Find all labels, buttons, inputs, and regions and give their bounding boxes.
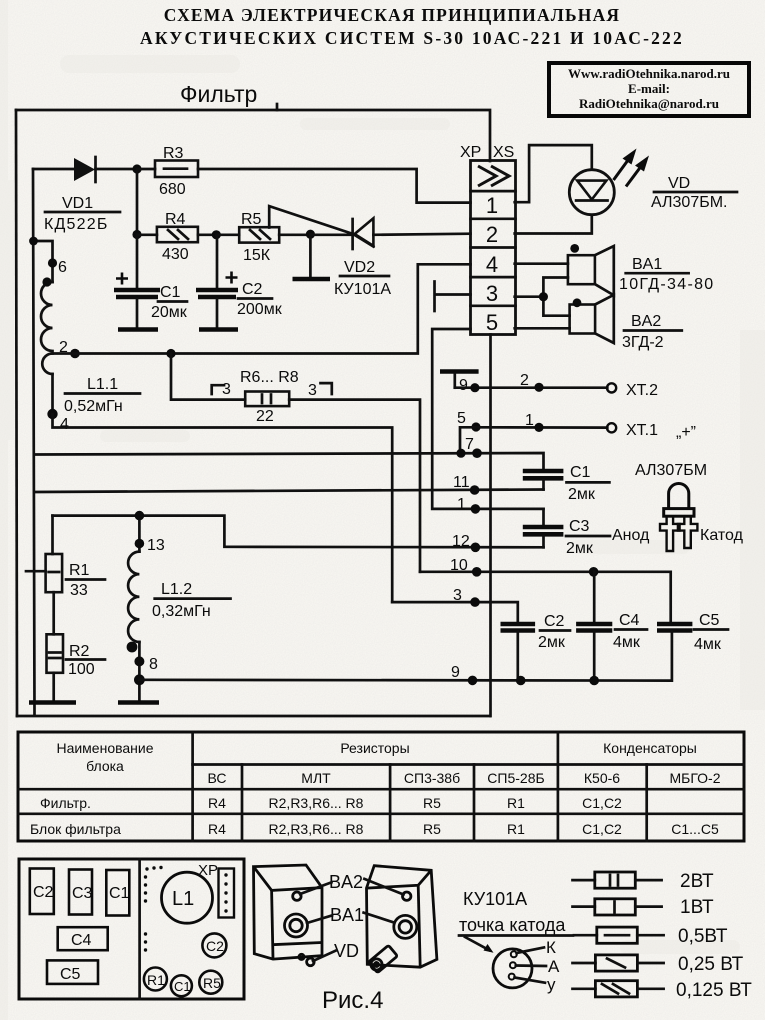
pad: winding end [127, 642, 138, 653]
pad 13 [135, 539, 145, 549]
wire: R6...R8 right to pad 10 rail [289, 400, 420, 572]
svg-text:4мк: 4мк [694, 636, 722, 653]
svg-text:3ГД-2: 3ГД-2 [622, 334, 664, 351]
svg-text:3: 3 [222, 381, 231, 398]
node: speaker tee junction [539, 292, 548, 301]
wire: pad 1 row [471, 504, 481, 514]
svg-text:Блок фильтра: Блок фильтра [30, 821, 121, 837]
ground bar under R2 [29, 700, 76, 705]
svg-text:XT.2: XT.2 [626, 382, 658, 399]
wire: row to terminal XT.1 [476, 426, 607, 429]
svg-text:VD1: VD1 [62, 195, 93, 212]
svg-text:0,125 ВТ: 0,125 ВТ [676, 980, 752, 1001]
Рис.4 right speaker cabinet [367, 866, 437, 974]
svg-text:9: 9 [459, 377, 468, 394]
svg-text:R5: R5 [203, 975, 221, 991]
inductor L1.1 [34, 241, 53, 414]
svg-text:100: 100 [68, 661, 95, 678]
svg-text:R2,R3,R6... R8: R2,R3,R6... R8 [269, 821, 364, 837]
VD2 gate lead [269, 206, 373, 246]
node: R4 left junction [132, 230, 141, 239]
svg-text:Рис.4: Рис.4 [322, 987, 383, 1014]
svg-text:C3: C3 [72, 885, 93, 902]
capacitor footprint C1 [106, 870, 129, 916]
wire: L1.1 pin4 row down to pad 3 row [53, 414, 393, 602]
svg-text:Анод: Анод [612, 527, 650, 544]
svg-text:2: 2 [520, 372, 529, 389]
wire: junction to common bar [309, 234, 312, 276]
wire: pin 5 stub left and down to pad 1 row [432, 329, 543, 509]
wire: pad 9 row from L1.2 to C5 bottom [139, 632, 672, 681]
pad 9 bar [440, 372, 479, 395]
wire: connector centre line down to bottom frame [489, 335, 492, 717]
node: L1.2 top junction [135, 511, 145, 521]
node 2 [534, 383, 543, 392]
power legend 0,25 Вт [573, 954, 744, 975]
svg-text:BA2: BA2 [631, 313, 661, 330]
svg-text:3: 3 [308, 382, 317, 399]
svg-text:7: 7 [465, 436, 474, 453]
wire: pad 3 row to C2 [392, 602, 518, 622]
svg-text:33: 33 [70, 582, 88, 599]
svg-text:C1: C1 [160, 284, 181, 301]
terminal XT.2 [607, 383, 616, 392]
svg-text:L1.1: L1.1 [87, 376, 118, 393]
wire: R1/L1.2 top net to pad 12 row [53, 516, 544, 548]
svg-text:C1: C1 [570, 464, 591, 481]
svg-text:2мк: 2мк [566, 540, 594, 557]
capacitor footprint C2 (round) [202, 933, 226, 957]
svg-text:L1.2: L1.2 [161, 581, 192, 598]
svg-text:5: 5 [457, 410, 466, 427]
svg-text:C2: C2 [242, 281, 263, 298]
pin У [509, 974, 515, 980]
capacitor C1 (20мк) [114, 235, 160, 330]
pin K [511, 951, 517, 957]
svg-text:VD: VD [334, 941, 359, 961]
node 1 [534, 423, 543, 432]
svg-text:C1,C2: C1,C2 [582, 795, 622, 811]
cathode leg [678, 516, 698, 548]
svg-text:1: 1 [457, 496, 466, 513]
pad 7a [456, 449, 465, 458]
wire: outer frame bottom edge [17, 715, 490, 718]
power legend 0,5 Вт [574, 926, 728, 947]
svg-text:C4: C4 [71, 932, 92, 949]
resistor R3 [137, 161, 198, 178]
svg-text:R1: R1 [507, 821, 525, 837]
connector XP/XS [471, 161, 516, 335]
node: R5/VD2 junction [306, 230, 315, 239]
node: pad 9 row junction [134, 674, 145, 685]
speaker BA1 [568, 244, 614, 295]
svg-text:2ВТ: 2ВТ [680, 871, 714, 892]
svg-text:8: 8 [149, 656, 158, 673]
resistor R1 [26, 516, 62, 635]
svg-text:1ВТ: 1ВТ [680, 897, 714, 918]
pin A [510, 962, 516, 968]
resistor R5 [216, 227, 310, 242]
svg-text:200мк: 200мк [237, 301, 283, 318]
pad 12 [471, 543, 481, 553]
power legend 0,125 Вт [573, 980, 753, 1001]
info box (web address) [549, 63, 749, 116]
svg-text:точка катода: точка катода [459, 915, 566, 935]
capacitor C2 (2мк) [501, 624, 536, 681]
resistor footprint R1 [144, 968, 167, 991]
capacitor C4 (4мк) [576, 572, 612, 681]
svg-text:К50-6: К50-6 [584, 770, 620, 786]
svg-text:у: у [547, 975, 556, 994]
svg-text:КУ101А: КУ101А [463, 889, 527, 909]
svg-text:блока: блока [86, 758, 124, 774]
svg-text:R3: R3 [163, 145, 184, 162]
svg-text:АЛ307БМ: АЛ307БМ [635, 462, 707, 479]
inductor footprint L1 [162, 872, 213, 923]
svg-text:12: 12 [452, 533, 470, 550]
svg-text:C1...C5: C1...C5 [671, 821, 719, 837]
svg-text:XS: XS [493, 144, 514, 161]
wire: pad 10 rail to C4/C5 top [420, 572, 671, 623]
svg-text:„+”: „+” [676, 424, 696, 441]
svg-text:C5: C5 [699, 612, 720, 629]
svg-text:R4: R4 [208, 821, 226, 837]
svg-text:СП5-28Б: СП5-28Б [487, 770, 544, 786]
svg-text:КУ101А: КУ101А [334, 281, 391, 298]
svg-text:C5: C5 [60, 966, 81, 983]
node: C4 top junction [589, 567, 599, 577]
svg-text:0,25 ВТ: 0,25 ВТ [678, 954, 744, 975]
resistor R4 [137, 227, 216, 242]
svg-text:0,32мГн: 0,32мГн [152, 603, 211, 620]
svg-text:Резисторы: Резисторы [340, 740, 409, 756]
indicator lamp cylinder [368, 945, 398, 973]
svg-text:R6... R8: R6... R8 [240, 369, 299, 386]
wire: pad 5 stub down to pad 7 row [460, 427, 476, 453]
node: C2 bottom junction [516, 676, 526, 686]
svg-text:А: А [548, 957, 560, 976]
svg-text:МЛТ: МЛТ [301, 770, 331, 786]
inductor L1.2 [128, 516, 139, 700]
capacitor footprint C2 [30, 869, 54, 915]
svg-text:13: 13 [147, 537, 165, 554]
label VD with leader [313, 941, 359, 961]
svg-text:1: 1 [525, 412, 534, 429]
wire: pad 11 row [35, 490, 544, 493]
bracket left with quantity 3 [212, 381, 231, 398]
anode leg [660, 516, 680, 551]
svg-text:R1: R1 [147, 972, 165, 988]
wire: stub from left rail to winding top [34, 241, 53, 282]
svg-text:9: 9 [451, 664, 460, 681]
svg-text:R4: R4 [165, 211, 186, 228]
svg-text:2: 2 [486, 222, 498, 247]
capacitor C1 (2мк) [523, 471, 564, 490]
svg-text:RadiOtehnika@narod.ru: RadiOtehnika@narod.ru [579, 96, 719, 111]
pad 8 [134, 656, 144, 666]
svg-text:VD2: VD2 [344, 259, 375, 276]
svg-text:МБГО-2: МБГО-2 [670, 770, 721, 786]
svg-text:5: 5 [486, 310, 498, 335]
svg-text:Катод: Катод [700, 527, 744, 544]
svg-text:АКУСТИЧЕСКИХ СИСТЕМ S-30 10АС-: АКУСТИЧЕСКИХ СИСТЕМ S-30 10АС-221 И 10АС… [140, 28, 684, 48]
LED VD [569, 149, 649, 215]
svg-text:C2: C2 [544, 613, 565, 630]
svg-text:R4: R4 [208, 795, 226, 811]
pad on XT.2 row [470, 383, 479, 392]
capacitor C3 (2мк) [523, 509, 564, 547]
svg-text:4мк: 4мк [613, 634, 641, 651]
svg-text:R1: R1 [69, 562, 90, 579]
solder dots row [144, 866, 163, 952]
svg-text:Наименование: Наименование [56, 740, 153, 756]
pad 10 [472, 567, 482, 577]
wire: tap 2 row to XP pin 4 [53, 264, 471, 353]
thyristor VD2 [269, 206, 470, 249]
svg-text:СХЕМА ЭЛЕКТРИЧЕСКАЯ ПРИНЦИПИАЛ: СХЕМА ЭЛЕКТРИЧЕСКАЯ ПРИНЦИПИАЛЬНАЯ [164, 5, 621, 25]
pad 9 (bottom) [468, 676, 478, 686]
svg-text:C1: C1 [174, 979, 191, 994]
svg-text:1: 1 [486, 193, 498, 218]
svg-text:0,52мГн: 0,52мГн [64, 398, 123, 415]
wire: row to terminal XT.2 [455, 386, 608, 389]
pin 2 tap pad [70, 349, 80, 359]
capacitor footprint C1 (round) [171, 975, 192, 996]
PCB layout figure [19, 859, 244, 999]
node Фильтр label [180, 81, 277, 110]
svg-text:VD: VD [668, 175, 690, 192]
power legend 1 Вт [573, 897, 714, 918]
flange [664, 509, 694, 517]
wire: junction down to R4 row [136, 169, 139, 235]
svg-text:2мк: 2мк [568, 486, 596, 503]
svg-text:3: 3 [486, 281, 498, 306]
svg-text:XT.1: XT.1 [626, 422, 658, 439]
svg-text:R5: R5 [241, 211, 262, 228]
svg-text:11: 11 [453, 474, 470, 491]
resistor R6...R8 [245, 392, 289, 407]
light emission arrows [614, 156, 632, 180]
svg-text:XP: XP [460, 144, 481, 161]
svg-text:R5: R5 [423, 795, 441, 811]
svg-text:E-mail:: E-mail: [628, 81, 670, 96]
svg-text:10ГД-34-80: 10ГД-34-80 [619, 276, 714, 293]
resistor footprint R5 [199, 971, 222, 994]
node: R4/R5/C2 junction [212, 230, 221, 239]
svg-text:20мк: 20мк [151, 304, 188, 321]
wire: pin 4 to BA1 [515, 262, 568, 265]
pad 3 [470, 597, 480, 607]
svg-text:BA1: BA1 [632, 256, 662, 273]
svg-text:3: 3 [453, 587, 462, 604]
wire: LED loop from chevron cell to pins 1,2 [515, 145, 592, 202]
svg-text:Фильтр: Фильтр [180, 81, 257, 107]
svg-text:0,5ВТ: 0,5ВТ [678, 926, 728, 947]
svg-text:2мк: 2мк [538, 634, 566, 651]
wire: outer frame left edge [16, 110, 17, 716]
capacitor footprint C5 [47, 960, 98, 984]
svg-text:4: 4 [60, 416, 69, 433]
chevron symbol [478, 166, 496, 186]
wire: pin 3 stub with terminal bar [435, 293, 471, 296]
svg-text:СП3-38б: СП3-38б [404, 770, 460, 786]
svg-text:C2: C2 [33, 884, 54, 901]
wire: pin 5 to BA2 [515, 327, 570, 330]
svg-text:КД522Б: КД522Б [44, 216, 109, 233]
svg-text:R5: R5 [423, 821, 441, 837]
svg-text:Фильтр.: Фильтр. [40, 795, 91, 811]
svg-text:C3: C3 [569, 518, 590, 535]
diode VD1 [74, 157, 137, 182]
svg-text:BA2: BA2 [329, 872, 363, 892]
pad 7b [472, 448, 482, 458]
label BA2 with leaders [300, 872, 404, 895]
capacitor footprint C3 [69, 870, 92, 915]
case circle [493, 949, 532, 988]
svg-text:L1: L1 [172, 888, 194, 910]
svg-text:C4: C4 [619, 612, 640, 629]
capacitor footprint C4 [58, 927, 108, 950]
pad 11 [470, 485, 480, 495]
wire: inner left vertical rail [33, 169, 35, 715]
svg-text:R1: R1 [507, 795, 525, 811]
svg-text:XP: XP [198, 862, 218, 879]
svg-text:BA1: BA1 [330, 905, 364, 925]
node: VD1/R3 junction [132, 164, 141, 173]
power legend 2 Вт [573, 871, 714, 892]
node: C4 bottom junction [589, 676, 599, 686]
pin 4 pad [47, 409, 57, 419]
terminal XT.1 [607, 423, 616, 432]
ground bar (VD2 cathode common) [293, 277, 331, 282]
svg-text:R2,R3,R6... R8: R2,R3,R6... R8 [269, 795, 364, 811]
connector footprint [219, 869, 235, 918]
svg-text:430: 430 [162, 246, 189, 263]
pad: winding start [42, 277, 51, 286]
svg-text:R2: R2 [69, 643, 90, 660]
svg-text:15К: 15К [243, 247, 271, 264]
thyristor КУ101А pinout [459, 889, 573, 994]
LED package drawing АЛ307БМ [612, 462, 744, 551]
ground bar under L1.2 [118, 700, 159, 705]
wire: R3 to XP pin 1 [198, 169, 471, 203]
svg-text:C1,C2: C1,C2 [582, 821, 622, 837]
svg-text:Конденсаторы: Конденсаторы [603, 740, 697, 756]
svg-text:22: 22 [256, 408, 274, 425]
svg-text:10: 10 [450, 557, 468, 574]
svg-text:К: К [546, 938, 556, 957]
capacitor C2 (200мк) [196, 235, 238, 330]
node: rail junction [29, 237, 38, 246]
wire: branch down to R6...R8 [171, 354, 245, 400]
wire: pad 7 row (box bottom rail) to C1 [35, 453, 544, 469]
dome [669, 484, 689, 509]
speaker BA2 [570, 295, 614, 343]
Рис.4 left speaker cabinet [254, 865, 323, 966]
wire: VD1 anode rail from inner left edge [33, 168, 74, 171]
svg-text:Www.radiOtehnika.narod.ru: Www.radiOtehnika.narod.ru [568, 66, 730, 81]
svg-text:680: 680 [159, 181, 186, 198]
arrow to case [465, 937, 489, 950]
pin 6 pad [48, 258, 57, 267]
pad 5 [471, 422, 480, 431]
wire: pin 3 to BA1/BA2 tee [515, 278, 570, 316]
wire: top bus (Фильтр) from frame left to connector [16, 110, 490, 161]
capacitor C5 (4мк) [657, 624, 692, 631]
resistor R2 [47, 634, 64, 700]
label BA1 with leaders [307, 905, 394, 925]
components table [18, 732, 744, 841]
svg-text:АЛ307БМ.: АЛ307БМ. [651, 194, 728, 211]
node: R6 branch junction [166, 349, 175, 358]
svg-text:C1: C1 [109, 885, 130, 902]
svg-text:6: 6 [58, 259, 67, 276]
svg-text:ВС: ВС [208, 770, 227, 786]
bracket right with quantity 3 [308, 382, 332, 399]
svg-text:C2: C2 [206, 938, 224, 954]
svg-text:4: 4 [486, 252, 498, 277]
